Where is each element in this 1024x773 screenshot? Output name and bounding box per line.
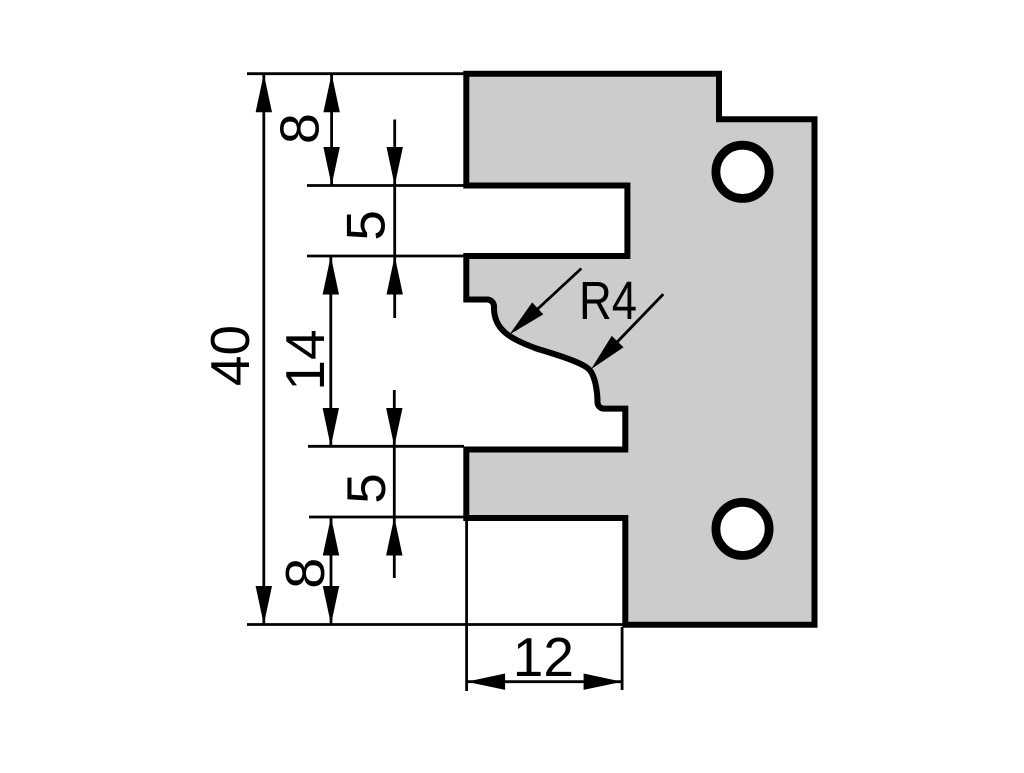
extension line top (y of plate top) <box>247 72 466 75</box>
arrowhead R4 upper leader <box>504 302 543 340</box>
arrowhead 14 up <box>323 256 339 295</box>
arrowhead 14 down <box>323 408 339 447</box>
extension line 12 left <box>465 520 468 691</box>
label 5 top <box>335 210 397 241</box>
dimension line 5 bottom <box>393 390 396 578</box>
svg-text:5: 5 <box>335 473 397 504</box>
svg-text:12: 12 <box>513 626 574 688</box>
mounting hole top <box>716 145 769 198</box>
svg-text:8: 8 <box>274 558 336 589</box>
arrowhead 40 down <box>256 586 272 625</box>
dimension line 8 top <box>330 74 333 186</box>
arrowhead 8 top up <box>323 74 339 113</box>
svg-text:14: 14 <box>274 329 336 390</box>
dimension line 14 <box>329 256 332 447</box>
arrowhead 8 bottom up <box>323 517 339 556</box>
profile knife plate body <box>466 74 814 625</box>
leader line R4 upper <box>515 269 581 331</box>
leader line R4 lower <box>596 294 663 364</box>
arrowhead 5 bottom lower (points up) <box>386 517 402 556</box>
arrowhead 5 bottom upper (points down) <box>386 408 402 447</box>
dimension line 40 <box>262 74 265 625</box>
arrowhead 5 top lower (points up) <box>387 256 403 295</box>
dimension line 12 <box>467 680 622 683</box>
dimension line 5 top <box>393 120 396 319</box>
label 14 <box>274 329 336 390</box>
label 8 bottom <box>274 558 336 589</box>
label 5 bottom <box>335 473 397 504</box>
arrowhead 5 top upper (points down) <box>387 147 403 186</box>
arrowhead R4 lower leader <box>585 336 623 375</box>
label 8 top <box>269 113 331 144</box>
arrowhead 8 bottom down <box>323 586 339 625</box>
arrowhead 40 up <box>256 74 272 113</box>
svg-text:R4: R4 <box>579 271 637 331</box>
extension line 12 right <box>621 627 624 690</box>
arrowhead 8 top down <box>323 147 339 186</box>
extension line bottom (plate bottom) <box>247 623 623 626</box>
extension line bar top <box>308 445 464 448</box>
svg-text:8: 8 <box>269 113 331 144</box>
label 40 <box>199 325 261 386</box>
svg-text:40: 40 <box>199 325 261 386</box>
mounting hole bottom <box>716 502 769 555</box>
extension line notch top <box>309 516 464 519</box>
extension line slot top <box>307 184 466 187</box>
arrowhead 12 left <box>467 674 506 690</box>
dimension line 8 bottom <box>330 517 333 625</box>
arrowhead 12 right <box>584 674 623 690</box>
extension line slot bottom <box>307 255 466 258</box>
svg-text:5: 5 <box>335 210 397 241</box>
